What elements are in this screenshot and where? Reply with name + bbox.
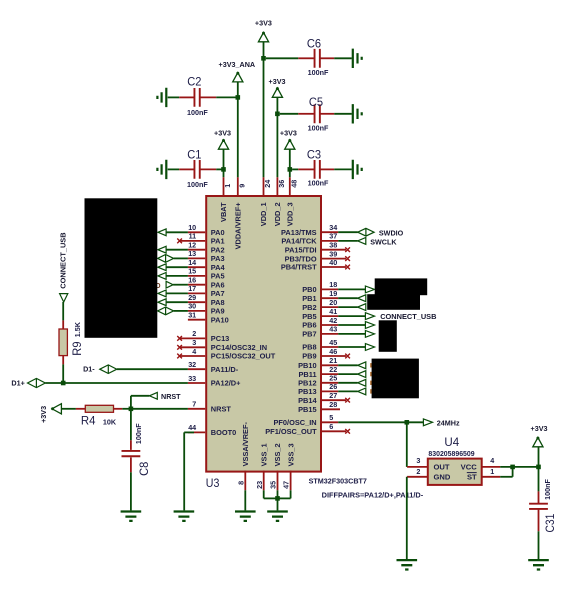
svg-text:PB8: PB8: [302, 343, 316, 352]
ground (C1): [157, 160, 166, 179]
svg-text:PB4/TRST: PB4/TRST: [281, 263, 317, 272]
svg-text:VDD_2: VDD_2: [273, 202, 282, 226]
ground (C5): [353, 104, 362, 123]
pin 31 PA10: [188, 319, 205, 321]
svg-text:VSS_1: VSS_1: [259, 443, 268, 466]
wire VDD_3: [289, 149, 291, 177]
svg-text:14: 14: [188, 258, 196, 267]
svg-text:45: 45: [329, 338, 337, 347]
pin 13 PA3: [188, 257, 205, 259]
svg-text:C3: C3: [307, 149, 321, 162]
svg-text:46: 46: [329, 347, 337, 356]
node ST/VCC junction: [510, 465, 515, 470]
svg-text:40: 40: [329, 258, 337, 267]
pin 23 VSS_1 (bottom): [263, 471, 265, 491]
resistor R4: [76, 408, 85, 410]
pin 28 PB15: [322, 408, 340, 410]
svg-text:VSS_2: VSS_2: [273, 443, 282, 466]
svg-text:NRST: NRST: [211, 405, 232, 414]
svg-text:1: 1: [223, 184, 232, 188]
pin 48 VDD_3 (top): [289, 177, 291, 197]
svg-text:100nF: 100nF: [308, 68, 329, 77]
svg-text:SWCLK: SWCLK: [370, 237, 397, 246]
svg-text:CONNECT_USB: CONNECT_USB: [380, 312, 436, 321]
svg-text:44: 44: [188, 423, 196, 432]
power +3V3 (VDD_2): [272, 88, 282, 97]
svg-text:100nF: 100nF: [187, 180, 208, 189]
svg-text:VBAT: VBAT: [219, 202, 228, 222]
svg-text:CONNECT_USB: CONNECT_USB: [59, 232, 68, 288]
pin 1 VBAT (top): [223, 177, 225, 197]
svg-text:17: 17: [188, 284, 196, 293]
pin 15 PA5: [188, 275, 205, 277]
pin 45 PB8: [322, 346, 338, 348]
svg-text:1: 1: [490, 467, 494, 476]
svg-text:PA5: PA5: [211, 272, 225, 281]
pin 40 PB4/TRST: [322, 266, 346, 268]
svg-text:PB5: PB5: [302, 312, 316, 321]
svg-text:U4: U4: [444, 436, 459, 449]
svg-text:28: 28: [329, 400, 337, 409]
pin 22 PB11: [322, 373, 338, 375]
pin 8 VSSA/VREF- (bottom): [244, 471, 246, 491]
svg-text:VCC: VCC: [461, 463, 478, 472]
wire VSS_3 route: [290, 490, 292, 498]
svg-text:PA4: PA4: [211, 263, 226, 272]
svg-text:23: 23: [255, 481, 264, 489]
ground (C2): [157, 88, 166, 107]
svg-text:PB9: PB9: [302, 352, 316, 361]
ground (BOOT0): [174, 512, 195, 521]
pin 37 PA14/TCK: [322, 240, 338, 242]
wire VBAT power: [223, 149, 225, 177]
svg-text:20: 20: [329, 298, 337, 307]
svg-text:PA8: PA8: [211, 298, 225, 307]
wire VCC net: [500, 466, 538, 468]
pin 36 VDD_2 (top): [276, 177, 278, 197]
oscillator U4 body: [428, 459, 482, 485]
svg-text:R4: R4: [81, 415, 96, 428]
pin 44 BOOT0: [188, 431, 205, 433]
svg-text:6: 6: [329, 422, 333, 431]
pin 46 PB9: [322, 355, 346, 357]
svg-text:NRST: NRST: [161, 392, 181, 401]
pin 38 PA15/TDI: [322, 249, 346, 251]
wire +3V3 to R4: [61, 408, 76, 410]
wire VSS_2 route: [277, 490, 279, 510]
wire OSC down to U4 OUT: [406, 422, 408, 467]
pin 47 VSS_3 (bottom): [290, 471, 292, 491]
svg-text:PA10: PA10: [211, 315, 229, 324]
svg-text:PC14/OSC32_IN: PC14/OSC32_IN: [211, 343, 267, 352]
svg-text:29: 29: [188, 293, 196, 302]
svg-text:+3V3: +3V3: [255, 19, 272, 28]
redaction box right B: [379, 320, 397, 352]
capacitor C6: [266, 57, 299, 59]
pin 5 PF0/OSC_IN: [322, 421, 338, 423]
pin 1 ST: [482, 476, 501, 478]
svg-text:U3: U3: [206, 477, 220, 490]
svg-text:+3V3: +3V3: [214, 129, 231, 138]
node OSC junction: [405, 420, 410, 425]
pin 16 PA6: [188, 284, 205, 286]
wire +3V3 to C31: [538, 447, 540, 492]
terminal CONNECT_USB (left): [60, 294, 68, 302]
svg-text:PA11/D-: PA11/D-: [211, 365, 239, 374]
svg-text:PB6: PB6: [302, 321, 316, 330]
svg-text:32: 32: [188, 360, 196, 369]
node C2/VDDA junction: [236, 95, 241, 100]
svg-text:9: 9: [237, 184, 246, 188]
node hidden label specks: [370, 363, 372, 367]
svg-text:38: 38: [329, 241, 337, 250]
svg-text:PC13: PC13: [211, 334, 230, 343]
svg-text:C6: C6: [307, 37, 321, 50]
pin 41 PB5: [322, 315, 338, 317]
svg-text:PB2: PB2: [302, 303, 316, 312]
svg-text:D1+: D1+: [11, 378, 24, 387]
svg-text:22: 22: [329, 365, 337, 374]
capacitor C8: [130, 411, 132, 440]
svg-text:100nF: 100nF: [308, 179, 329, 188]
wire VSS_1 route: [263, 490, 265, 498]
svg-text:PB13: PB13: [298, 387, 317, 396]
svg-text:PA7: PA7: [211, 289, 225, 298]
svg-text:48: 48: [289, 180, 298, 188]
svg-text:12: 12: [188, 241, 196, 250]
svg-text:13: 13: [188, 249, 196, 258]
svg-text:24MHz: 24MHz: [437, 418, 460, 427]
svg-text:19: 19: [329, 289, 337, 298]
power +3V3 (VDD_3): [285, 140, 295, 149]
pin 12 PA2: [188, 249, 205, 251]
svg-text:PA9: PA9: [211, 307, 225, 316]
capacitor C3: [292, 168, 298, 170]
svg-text:3: 3: [192, 338, 196, 347]
svg-text:27: 27: [329, 391, 337, 400]
pin 9 VDDA/VREF+ (top): [237, 177, 239, 197]
pin 32 PA11/D-: [188, 368, 205, 370]
ground (VSSA): [235, 512, 256, 521]
svg-text:GND: GND: [434, 473, 451, 482]
wire ST to VCC: [500, 476, 512, 478]
svg-text:PB7: PB7: [302, 330, 316, 339]
power +3V3 (VDD_1): [258, 33, 268, 42]
pin 30 PA9: [188, 310, 205, 312]
pin 33 PA12/D+: [188, 382, 205, 384]
svg-text:OUT: OUT: [434, 463, 450, 472]
svg-text:1.5K: 1.5K: [73, 321, 82, 337]
pin 18 PB0: [322, 288, 338, 290]
capacitor C5: [280, 113, 299, 115]
pin 11 PA1: [180, 240, 205, 242]
svg-text:PB15: PB15: [298, 405, 317, 414]
pin 42 PB6: [322, 324, 338, 326]
pin 21 PB10: [322, 364, 338, 366]
svg-text:R9: R9: [71, 342, 84, 356]
svg-text:31: 31: [188, 311, 196, 320]
svg-text:SWDIO: SWDIO: [379, 228, 404, 237]
capacitor C2: [168, 96, 180, 98]
svg-text:21: 21: [329, 356, 337, 365]
svg-text:PB10: PB10: [298, 361, 317, 370]
wire D1+ to PA12: [45, 382, 188, 384]
ground (C3): [353, 160, 362, 179]
node C5/VDD_2 junction: [275, 112, 280, 117]
svg-text:C5: C5: [309, 96, 323, 109]
svg-text:PB1: PB1: [302, 294, 316, 303]
pin 7 NRST: [188, 408, 205, 410]
IC U3 STM32F303CBT7 body: [206, 196, 321, 472]
svg-text:D1-: D1-: [83, 365, 95, 374]
pin 25 PB12: [322, 382, 338, 384]
pin 14 PA4: [188, 266, 205, 268]
wire PF0/OSC_IN to 24MHz: [338, 421, 423, 423]
svg-text:100nF: 100nF: [134, 423, 143, 444]
svg-text:830205896509: 830205896509: [428, 449, 474, 458]
svg-text:+3V3_ANA: +3V3_ANA: [219, 60, 256, 69]
svg-text:PB14: PB14: [298, 396, 317, 405]
svg-text:35: 35: [269, 481, 278, 489]
svg-text:PB11: PB11: [299, 370, 317, 379]
node VSS junction: [275, 496, 280, 501]
pin 24 VDD_1 (top): [263, 177, 265, 197]
svg-text:11: 11: [189, 232, 197, 241]
pin 27 PB14: [322, 399, 346, 401]
capacitor C31: [529, 504, 548, 509]
svg-text:5: 5: [329, 413, 333, 422]
svg-text:2: 2: [192, 329, 196, 338]
redaction box right A: [375, 278, 428, 295]
svg-text:PF1/OSC_OUT: PF1/OSC_OUT: [265, 427, 317, 436]
svg-text:PF0/OSC_IN: PF0/OSC_IN: [273, 418, 316, 427]
ground (U4): [397, 560, 418, 569]
svg-text:PA2: PA2: [211, 245, 225, 254]
svg-text:PC15/OSC32_OUT: PC15/OSC32_OUT: [211, 352, 276, 361]
svg-text:STM32F303CBT7: STM32F303CBT7: [309, 476, 367, 485]
svg-text:DIFFPAIRS=PA12/D+,PA11/D-: DIFFPAIRS=PA12/D+,PA11/D-: [322, 491, 424, 500]
svg-text:PA15/TDI: PA15/TDI: [285, 245, 317, 254]
ground (C8): [121, 512, 142, 521]
redaction box left: [85, 198, 158, 337]
svg-text:24: 24: [263, 180, 272, 188]
pin 3 PC14/OSC32_IN: [180, 346, 205, 348]
pin 6 PF1/OSC_OUT: [322, 430, 346, 432]
svg-text:BOOT0: BOOT0: [211, 428, 236, 437]
svg-text:PA6: PA6: [211, 280, 225, 289]
pin 39 PB3/TDO: [322, 258, 346, 260]
pin 34 PA13/TMS: [322, 231, 338, 233]
svg-text:26: 26: [329, 382, 337, 391]
pin 19 PB1: [322, 297, 338, 299]
terminal NRST: [130, 396, 132, 409]
node C6/VDD_1 junction: [261, 56, 266, 61]
svg-text:100nF: 100nF: [308, 123, 329, 132]
svg-text:36: 36: [277, 180, 286, 188]
ground (VSS): [267, 512, 288, 521]
node VCC/+3V3 junction: [536, 465, 541, 470]
svg-text:37: 37: [329, 232, 337, 241]
svg-text:4: 4: [192, 347, 196, 356]
wire D1- to PA11: [117, 368, 188, 370]
pin 3 OUT: [407, 466, 428, 468]
svg-text:4: 4: [490, 456, 494, 465]
svg-text:PA13/TMS: PA13/TMS: [281, 228, 317, 237]
svg-text:C2: C2: [187, 75, 201, 88]
pin 29 PA8: [188, 301, 205, 303]
svg-text:PA3: PA3: [211, 254, 225, 263]
svg-text:2: 2: [416, 467, 420, 476]
resistor R9: [62, 320, 64, 329]
wire NRST to pin7: [131, 408, 188, 410]
pin 10 PA0: [188, 231, 205, 233]
svg-text:C31: C31: [544, 514, 557, 533]
svg-text:34: 34: [329, 223, 337, 232]
wire U4 GND down: [406, 477, 408, 560]
power +3V3_ANA (VDDA): [233, 73, 243, 82]
svg-text:7: 7: [192, 400, 196, 409]
svg-text:VSSA/VREF-: VSSA/VREF-: [241, 422, 250, 467]
svg-text:30: 30: [188, 302, 196, 311]
svg-text:16: 16: [188, 276, 196, 285]
wire VDDA: [237, 82, 239, 177]
svg-text:15: 15: [188, 267, 196, 276]
svg-text:+3V3: +3V3: [531, 424, 548, 433]
node R9/D+ junction: [61, 381, 66, 386]
node C3/VDD_3 junction: [288, 167, 293, 172]
svg-text:43: 43: [329, 325, 337, 334]
svg-text:100nF: 100nF: [543, 479, 552, 500]
svg-text:+3V3: +3V3: [39, 406, 48, 423]
wire BOOT0: [184, 431, 194, 433]
svg-text:VDD_3: VDD_3: [286, 202, 295, 226]
wire CONNECT_USB to R9: [62, 302, 64, 320]
svg-text:47: 47: [282, 481, 291, 489]
terminal 24MHz: [423, 419, 432, 426]
wire VSSA to gnd: [244, 490, 246, 510]
svg-text:PA14/TCK: PA14/TCK: [281, 237, 317, 246]
wire VDD_2: [276, 97, 278, 177]
pin 43 PB7: [322, 333, 338, 335]
pin 4 PC15/OSC32_OUT: [180, 355, 205, 357]
svg-text:C8: C8: [138, 462, 151, 476]
svg-text:+3V3: +3V3: [269, 77, 286, 86]
wire VDD_1: [263, 42, 265, 178]
svg-text:VDDA/VREF+: VDDA/VREF+: [234, 202, 243, 250]
svg-text:ST: ST: [467, 473, 477, 482]
pin 4 VCC: [482, 466, 501, 468]
ground (C6): [353, 49, 362, 68]
pin 35 VSS_2 (bottom): [277, 471, 279, 491]
ground (C31): [528, 560, 549, 569]
pin 2 GND: [407, 476, 428, 478]
svg-text:18: 18: [329, 280, 337, 289]
redaction box right C: [372, 359, 419, 399]
svg-text:41: 41: [329, 307, 337, 316]
svg-text:10K: 10K: [103, 418, 117, 427]
node NRST junction: [129, 407, 134, 412]
svg-text:+3V3: +3V3: [280, 129, 297, 138]
svg-text:42: 42: [329, 316, 337, 325]
svg-text:VSS_3: VSS_3: [286, 443, 295, 466]
svg-text:PA12/D+: PA12/D+: [211, 379, 241, 388]
pin 26 PB13: [322, 390, 338, 392]
capacitor C1: [168, 168, 180, 170]
svg-text:8: 8: [236, 481, 245, 485]
svg-text:VDD_1: VDD_1: [259, 202, 268, 226]
pin 2 PC13: [180, 337, 205, 339]
node C1/VBAT junction: [221, 167, 226, 172]
svg-text:PB0: PB0: [302, 285, 316, 294]
svg-text:3: 3: [416, 456, 420, 465]
power +3V3 (VBAT): [218, 140, 228, 149]
svg-text:100nF: 100nF: [187, 108, 208, 117]
svg-text:C1: C1: [187, 149, 201, 162]
svg-text:PA1: PA1: [211, 237, 225, 246]
svg-text:33: 33: [188, 374, 196, 383]
pin 20 PB2: [322, 306, 338, 308]
pin 17 PA7: [188, 292, 205, 294]
